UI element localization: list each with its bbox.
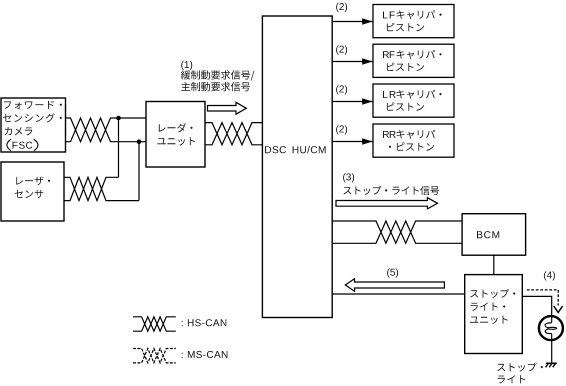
wire: radar-to-DSC twisted pair (HS-CAN) (205, 123, 262, 145)
label: (1) (181, 61, 192, 70)
block: LF caliper piston (373, 5, 454, 38)
arrow: DSC to LR caliper (332, 98, 373, 105)
block: RF caliper piston (373, 44, 454, 77)
label: stop light signal (343, 186, 439, 195)
label: (4) (544, 271, 555, 280)
node: junction dot upper (116, 116, 121, 121)
label: stop light lamp (497, 363, 543, 384)
block: BCM (462, 214, 525, 256)
arrow: signal direction (1) (208, 102, 247, 114)
wire: drop from lower junction (138, 142, 140, 201)
wire: DSC to stop-light unit (332, 293, 465, 295)
wire: DSC-to-BCM twisted pair (HS-CAN) (332, 221, 462, 243)
block: forward sensing camera (FSC) (1, 98, 66, 152)
legend: MS-CAN symbol (133, 349, 176, 363)
wire: BCM to stop-light unit (493, 255, 495, 274)
label: (3) (343, 173, 354, 182)
block: stop-light unit (465, 275, 523, 354)
block: LR caliper piston (373, 84, 454, 117)
wire: FSC-to-radar twisted pair (HS-CAN) (66, 118, 147, 142)
wire: drop from upper junction (118, 118, 120, 177)
label: (2) #1 (336, 3, 347, 12)
label: (2) #2 (336, 45, 347, 54)
block: DSC HU/CM (262, 16, 332, 318)
block: laser sensor (1, 162, 64, 221)
legend: HS-CAN symbol (133, 317, 176, 331)
block: radar unit (146, 102, 205, 168)
arrow: DSC to RF caliper (332, 58, 373, 65)
legend: MS-CAN label (182, 351, 228, 358)
lamp: stop light bulb (539, 316, 563, 340)
label: (2) #4 (336, 125, 347, 134)
ground: chassis ground (546, 363, 557, 367)
label: brake request signals (181, 70, 255, 91)
arrow: dashed control line (4) (527, 290, 563, 313)
arrow: signal direction (3) (336, 198, 438, 209)
arrow: DSC to RR caliper (332, 138, 373, 145)
label: (2) #3 (336, 85, 347, 94)
legend: HS-CAN label (182, 319, 227, 326)
node: junction dot lower (137, 139, 142, 144)
label: (5) (387, 268, 398, 277)
wire: unit to stop lamp (522, 296, 551, 316)
wire: lamp to ground (551, 340, 553, 363)
block: RR caliper piston (373, 124, 454, 157)
arrow: signal direction (5) (345, 279, 444, 291)
arrow: DSC to LF caliper (332, 18, 373, 25)
wire: laser-to-junction twisted pair (HS-CAN) (64, 177, 139, 200)
